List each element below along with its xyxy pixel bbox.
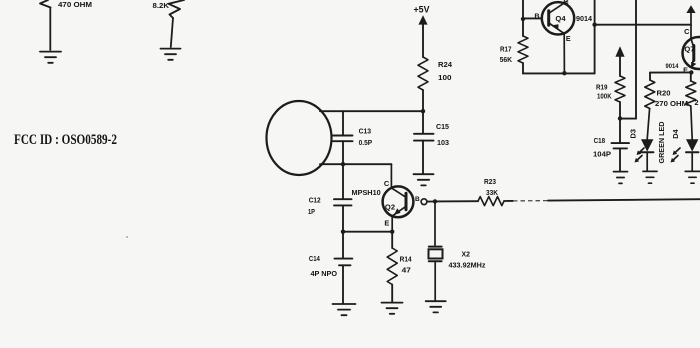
svg-text:4P NPO: 4P NPO (311, 269, 338, 278)
resistor R14 (387, 248, 397, 285)
wire base node from top edge (522, 0, 524, 19)
svg-text:103: 103 (437, 138, 449, 147)
resistor R? 8.2K (partial, top-left #2) (169, 0, 185, 18)
Q4 emitter stroke (549, 23, 564, 34)
node junction R19/C18 (618, 116, 622, 120)
D4 emission arrows (674, 148, 680, 154)
svg-text:470 OHM: 470 OHM (58, 0, 92, 9)
ground (C18) (614, 171, 628, 173)
Q4 collector stroke (549, 1, 567, 13)
crystal X2 (429, 246, 442, 248)
LED D4 cathode lead (691, 153, 693, 171)
svg-text:D3: D3 (628, 129, 637, 138)
svg-text:B: B (415, 196, 420, 203)
resistor R23 (478, 197, 504, 206)
svg-text:9014: 9014 (666, 63, 679, 70)
resistor R21 (686, 81, 696, 106)
wire to Q4 base (523, 17, 542, 19)
svg-text:X2: X2 (462, 249, 471, 258)
svg-text:C15: C15 (436, 122, 449, 131)
capacitor C15 (414, 133, 434, 135)
wire Q2 emitter down (391, 216, 393, 232)
wire node to X2 (434, 201, 436, 245)
capacitor C15 top lead (422, 111, 424, 133)
svg-text:R17: R17 (500, 44, 512, 53)
svg-text:Q4: Q4 (555, 14, 566, 23)
LED D3 cathode lead (646, 153, 648, 171)
node junction C13/C12/wire (341, 162, 345, 166)
ground (C15) (414, 173, 434, 175)
resistor R20 lead (649, 73, 651, 80)
wire antenna top to R24/C15 node (320, 110, 423, 112)
resistor R20 (645, 80, 655, 109)
resistor R14 lead2 (391, 285, 393, 303)
svg-text:E: E (384, 218, 389, 227)
svg-text:R23: R23 (484, 177, 496, 186)
transistor Q2 body (383, 186, 414, 217)
svg-text:2: 2 (695, 98, 699, 107)
svg-text:R20: R20 (657, 88, 671, 97)
node junction riser/long wire (592, 23, 596, 27)
Q2 base terminal circle (421, 199, 427, 205)
D3 emission arrows (638, 148, 644, 154)
svg-text:C: C (384, 179, 390, 188)
svg-text:R19: R19 (596, 84, 608, 91)
capacitor C14 top lead (342, 232, 344, 259)
node junction R17/Q4 base (521, 17, 525, 21)
svg-text:433.92MHz: 433.92MHz (449, 261, 486, 270)
resistor R17 (518, 36, 528, 63)
svg-text:R14: R14 (400, 255, 412, 264)
capacitor C12 (334, 198, 352, 200)
transistor Q7 body (683, 37, 700, 69)
LED D3 (641, 139, 653, 151)
svg-text:270 OHM: 270 OHM (655, 99, 688, 108)
wire Q2 collector drop (390, 164, 392, 187)
node junction base/R23/X2 (433, 199, 437, 203)
wire R21 to D4 (691, 106, 692, 139)
svg-text:47: 47 (402, 266, 411, 275)
supply arrow (R19) (615, 46, 624, 57)
wire base to node (427, 201, 434, 203)
capacitor C18 top lead (619, 119, 621, 143)
svg-text:8.2K: 8.2K (153, 1, 170, 10)
capacitor C12 top lead (342, 164, 344, 199)
wire to Q2 collector (343, 163, 391, 165)
svg-text:56K: 56K (500, 55, 513, 64)
resistor R14 lead (391, 232, 393, 248)
long wire to Q7 collector (595, 24, 691, 26)
svg-text:E: E (566, 34, 571, 43)
capacitor C13 top lead (342, 111, 344, 135)
svg-text:104P: 104P (593, 150, 611, 159)
wire R17 to emitter to riser (523, 72, 595, 74)
wire Q7 emitter rail (650, 71, 691, 73)
wire riser x595 (594, 0, 596, 73)
capacitor C14 (335, 258, 353, 260)
svg-text:Q2: Q2 (385, 202, 395, 211)
svg-text:D4: D4 (671, 128, 680, 138)
node junction C12/C14/emitter wire (341, 230, 345, 234)
svg-text:R24: R24 (438, 60, 453, 69)
Q7 collector stroke (691, 39, 694, 48)
resistor R24 lead2 (422, 90, 424, 111)
+5V supply arrow (418, 15, 427, 24)
node junction emitter/R14 (390, 230, 394, 234)
svg-text:C13: C13 (359, 127, 372, 136)
ground (R14) (382, 302, 403, 304)
svg-text:C12: C12 (309, 196, 321, 205)
svg-text:B: B (534, 12, 539, 21)
ground (8.2K resistor) (161, 48, 181, 50)
Q7 base bar (692, 46, 695, 61)
resistor R17 lead (522, 19, 524, 36)
wire Q4 emitter down (563, 34, 565, 74)
svg-text:100: 100 (438, 73, 452, 82)
svg-text:1P: 1P (308, 207, 315, 216)
Q4 base bar (547, 11, 550, 25)
Q2 collector stroke (391, 188, 406, 197)
wire C12 to emitter (343, 231, 392, 233)
wire R23 to right edge (504, 200, 513, 202)
capacitor C18 (612, 142, 630, 144)
svg-text:FCC ID : OSO0589-2: FCC ID : OSO0589-2 (14, 132, 117, 148)
capacitor C13 (333, 135, 353, 137)
resistor R? 470 OHM (partial, top-left) (40, 0, 51, 8)
svg-text:100K: 100K (597, 94, 612, 101)
Q2 emitter stroke (392, 206, 406, 216)
svg-text:MPSH10: MPSH10 (352, 188, 381, 197)
svg-text:C18: C18 (594, 138, 606, 145)
svg-text:C: C (563, 0, 569, 6)
resistor R19 (615, 76, 625, 102)
capacitor C13 bottom lead (342, 141, 344, 164)
capacitor C12 bottom lead (342, 205, 344, 231)
node junction Q7 emitter (689, 70, 693, 74)
wire antenna bottom stub (320, 163, 343, 165)
ground (D3) (643, 170, 657, 172)
LED D4 (686, 139, 698, 151)
ground (470 OHM resistor) (40, 51, 61, 53)
transistor Q4 body (542, 2, 574, 34)
svg-text:GREEN LED: GREEN LED (659, 122, 666, 164)
wire R20 to D3 (647, 109, 649, 140)
wire node to R23 (435, 200, 478, 202)
resistor R21 lead (690, 72, 692, 81)
svg-text:0.5P: 0.5P (359, 138, 373, 147)
resistor R24 lead (422, 27, 424, 57)
Q2 base bar (405, 193, 408, 209)
capacitor C18 bottom lead (619, 148, 621, 171)
ground (D4) (685, 170, 700, 172)
svg-text:Q7: Q7 (684, 45, 694, 54)
svg-text:33K: 33K (486, 188, 499, 197)
loop antenna L1 (267, 101, 332, 175)
wire riser x636 (635, 0, 637, 119)
ground (C14) (333, 303, 356, 305)
supply arrow (Q7 collector) (686, 5, 695, 13)
node junction emitter/bottom wire (562, 71, 566, 75)
svg-text:C14: C14 (309, 254, 320, 263)
svg-text:C: C (684, 27, 690, 36)
crystal X2 bottom lead (434, 262, 436, 301)
capacitor C15 bottom lead (422, 141, 424, 174)
node junction R24/C15/wire (421, 109, 425, 113)
resistor R19 lead2 (619, 102, 621, 119)
svg-text:9014: 9014 (576, 14, 593, 23)
resistor R17 lead2 (522, 63, 524, 73)
svg-text:+5V: +5V (414, 5, 430, 15)
capacitor C14 bottom lead (342, 265, 344, 303)
ground (X2) (426, 300, 446, 302)
Q7 emitter stroke (691, 59, 694, 68)
resistor R24 (418, 57, 428, 90)
